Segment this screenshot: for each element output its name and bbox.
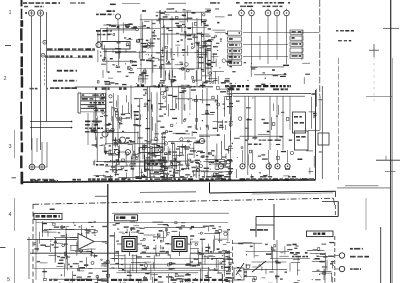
bus wire bbox=[34, 268, 107, 270]
transistor Q7 bbox=[120, 137, 126, 143]
terminal label REM SHIFT bbox=[350, 256, 369, 258]
right margin tick bbox=[383, 27, 399, 29]
svg-text:2: 2 bbox=[4, 76, 7, 82]
wire bbox=[321, 86, 323, 179]
wire bbox=[107, 184, 109, 283]
bus wire bbox=[110, 263, 226, 265]
right tick bbox=[385, 156, 387, 160]
input select section (upper) bbox=[201, 8, 232, 23]
connector label stack bbox=[81, 94, 106, 112]
wire bbox=[206, 88, 208, 178]
junction bbox=[41, 53, 45, 57]
transistor Q1 bbox=[96, 42, 101, 47]
border text row bbox=[88, 178, 302, 181]
cable label 2 bbox=[45, 57, 93, 59]
speaker terminal B bbox=[39, 164, 45, 170]
pre out main in labels bbox=[85, 121, 102, 123]
wire bbox=[31, 138, 33, 164]
wire bbox=[45, 166, 48, 168]
tone amp label box bbox=[115, 215, 138, 221]
wire bbox=[319, 96, 321, 130]
rec play equipment label bbox=[107, 10, 116, 12]
top block right border bbox=[315, 90, 317, 180]
wire tick bbox=[95, 195, 108, 197]
flat amp section bbox=[168, 85, 198, 141]
small text bbox=[96, 164, 108, 166]
bus wire bbox=[27, 239, 77, 241]
wire bbox=[276, 96, 278, 140]
selector terminal J4 bbox=[249, 10, 255, 16]
box top wire bbox=[232, 242, 262, 244]
wire bbox=[217, 95, 219, 132]
wire bbox=[365, 198, 367, 230]
muting section bbox=[195, 131, 233, 180]
relay box K3 bbox=[318, 133, 329, 145]
wire bbox=[95, 93, 97, 140]
input terminal J1 bbox=[29, 10, 35, 16]
margin tick bbox=[5, 45, 11, 47]
fuse box F1 bbox=[139, 148, 150, 153]
wire bbox=[40, 16, 42, 150]
junction cluster bbox=[221, 251, 234, 283]
IC U1 box bbox=[102, 42, 130, 50]
right horizontal wire bbox=[376, 159, 400, 161]
title underline bbox=[122, 3, 140, 5]
margin line segments bbox=[14, 130, 16, 158]
wire bbox=[273, 204, 275, 240]
wire bbox=[244, 96, 246, 165]
connector bracket bbox=[77, 93, 79, 113]
wire bbox=[269, 96, 271, 150]
title text row right bbox=[210, 2, 220, 4]
transistor Q2 bbox=[115, 14, 120, 19]
small label bbox=[247, 144, 272, 146]
equalizer amp label bbox=[137, 84, 163, 86]
bus wire bbox=[30, 252, 228, 254]
selector section texture bbox=[230, 62, 311, 85]
right small text bbox=[336, 30, 354, 32]
wire bbox=[31, 16, 33, 150]
remote driver section bbox=[307, 242, 334, 283]
power section right bbox=[199, 143, 233, 178]
wire bbox=[87, 113, 89, 145]
label row bbox=[30, 88, 49, 90]
right cross mark bbox=[369, 49, 379, 51]
wire bbox=[230, 96, 232, 178]
bus wire bbox=[36, 222, 228, 224]
wire bbox=[301, 30, 303, 60]
right tick 2 bbox=[385, 171, 396, 173]
wire pair bbox=[30, 121, 72, 123]
wire bbox=[196, 18, 198, 86]
left content line bbox=[35, 220, 37, 280]
lower block right dashed border bbox=[334, 205, 336, 217]
bus wire bbox=[112, 258, 229, 260]
bus wire bbox=[135, 86, 213, 88]
remote terminal 1 bbox=[339, 253, 344, 258]
wire bbox=[171, 16, 173, 86]
wire bbox=[337, 202, 339, 217]
wire bbox=[46, 142, 48, 167]
switch S2 bbox=[252, 261, 266, 272]
bus wire bbox=[233, 93, 311, 95]
remote control label box bbox=[307, 231, 334, 237]
wire bbox=[270, 258, 310, 260]
selector matrix wires bbox=[243, 33, 319, 65]
dashed switch row bbox=[245, 140, 300, 141]
op-amp U10 bbox=[78, 234, 94, 250]
ic label rows bbox=[96, 30, 112, 32]
svg-text:3: 3 bbox=[9, 144, 12, 150]
label row bbox=[57, 70, 77, 72]
wire bbox=[209, 182, 211, 192]
bus wire bbox=[137, 68, 200, 70]
terminal label GND bbox=[350, 268, 361, 270]
lower block dash-dot border bbox=[33, 198, 334, 204]
label row bbox=[50, 87, 77, 89]
transistor Q11 bbox=[199, 138, 204, 143]
module M1 (shielded can) bbox=[117, 232, 142, 257]
transistor Q5 bbox=[102, 131, 108, 137]
wire bbox=[117, 95, 119, 145]
wire bbox=[46, 12, 48, 122]
ac terminal row bbox=[218, 164, 290, 169]
right sheet border line bbox=[390, 0, 392, 283]
title text row left bbox=[23, 2, 60, 4]
wire bbox=[196, 95, 198, 130]
border text row 2 bbox=[31, 180, 58, 182]
wire bbox=[105, 93, 107, 131]
pilot terminal bbox=[115, 150, 120, 155]
cable label 1 bbox=[47, 50, 96, 52]
speaker terminal A bbox=[29, 164, 35, 170]
bus wire bbox=[105, 143, 166, 145]
wire fan bbox=[160, 88, 162, 111]
wire bbox=[105, 87, 107, 145]
title text row mid bbox=[110, 4, 116, 6]
bus wire bbox=[210, 191, 336, 193]
wire bbox=[140, 14, 142, 86]
wire bbox=[267, 16, 269, 33]
relay box K1 bbox=[293, 112, 306, 133]
wire bbox=[132, 150, 134, 180]
junction bbox=[43, 40, 47, 44]
wire bbox=[308, 130, 320, 132]
lower block left dashed border bbox=[32, 204, 34, 283]
bus wire bbox=[140, 191, 196, 193]
label row bbox=[53, 80, 77, 82]
bus wire bbox=[118, 270, 229, 272]
cable shield dashes bbox=[44, 59, 46, 86]
selector terminal J5 bbox=[265, 10, 271, 16]
svg-text:5: 5 bbox=[7, 277, 10, 283]
wire bbox=[35, 166, 39, 168]
bus wire bbox=[100, 28, 160, 30]
wire bbox=[289, 96, 291, 130]
main tone amp section bbox=[109, 222, 231, 283]
remote box dashed border bbox=[232, 240, 234, 283]
bus wire 2 bbox=[252, 193, 333, 194]
top block bottom border bbox=[22, 180, 316, 182]
selector terminal J6 bbox=[274, 10, 280, 16]
terminal label +B SHIFT bbox=[350, 248, 363, 250]
source selector labels (AUX/TUNER/PHONO) bbox=[228, 31, 242, 65]
wire bbox=[255, 216, 257, 237]
lower border note bbox=[50, 209, 55, 211]
wire bbox=[251, 16, 253, 33]
module M2 (shielded can) bbox=[167, 232, 192, 257]
tone control label bbox=[95, 88, 127, 90]
margin tick bbox=[0, 247, 6, 249]
power trans box T1 bbox=[145, 160, 165, 170]
relay box K2 bbox=[295, 131, 309, 150]
bus wire bbox=[256, 215, 338, 217]
terminal stub wires bbox=[242, 150, 244, 163]
selector terminal J7 bbox=[284, 10, 290, 16]
wire bbox=[322, 201, 338, 203]
wire bbox=[282, 96, 284, 150]
left border segment bbox=[28, 237, 30, 279]
rec out selector column bbox=[143, 85, 168, 177]
wire bbox=[254, 96, 256, 140]
selector terminal J3 bbox=[239, 10, 245, 16]
rec out column wires bbox=[146, 86, 148, 178]
right border double line bbox=[391, 58, 393, 283]
mode select label strip bbox=[225, 85, 291, 87]
sparse wires area bbox=[276, 144, 322, 160]
input terminal J2 bbox=[38, 10, 44, 16]
wire bbox=[248, 96, 250, 140]
relay frame bbox=[234, 268, 244, 280]
inner box top bbox=[112, 212, 229, 214]
wire bbox=[241, 16, 243, 30]
right horizontal wire bbox=[337, 187, 391, 189]
right column texture bbox=[308, 89, 322, 129]
power amp drive section bbox=[168, 141, 201, 179]
remote terminal 2 bbox=[339, 266, 344, 271]
wire bbox=[41, 142, 43, 164]
monitor selector labels (TAPE/MON) bbox=[290, 30, 303, 58]
switch S1 bbox=[236, 263, 244, 275]
input select section bbox=[196, 30, 233, 84]
wire bbox=[256, 224, 274, 226]
bus wire bbox=[233, 95, 305, 97]
function switch section bbox=[194, 86, 234, 130]
remote amp section bbox=[237, 243, 300, 283]
right vertical wire bbox=[337, 58, 339, 180]
wire bbox=[319, 0, 321, 96]
right vertical wire bbox=[373, 57, 375, 104]
right vertical wire bbox=[380, 227, 382, 283]
wire bbox=[36, 138, 38, 152]
pre/tone amp label box bbox=[34, 213, 62, 219]
label text bbox=[250, 229, 268, 231]
svg-text:4: 4 bbox=[9, 212, 12, 218]
wire bbox=[113, 93, 115, 140]
tick bbox=[25, 12, 27, 14]
amp section top border bbox=[75, 86, 135, 88]
head amp section bbox=[136, 8, 212, 90]
equalizer amp section bbox=[97, 22, 139, 85]
wire bbox=[276, 240, 278, 283]
speaker label bbox=[290, 252, 308, 254]
right horizontal tick bbox=[366, 96, 392, 98]
wire bbox=[286, 16, 288, 33]
wire bbox=[276, 16, 278, 33]
wire bbox=[184, 12, 186, 80]
wire bbox=[160, 10, 162, 78]
right column texture low bbox=[306, 151, 314, 174]
left sheet border bar (top section) bbox=[20, 0, 23, 184]
svg-text:1: 1 bbox=[9, 10, 12, 16]
power supply section bbox=[104, 140, 200, 180]
pre tone amp section bbox=[34, 221, 110, 283]
bus wire bbox=[118, 52, 208, 54]
tone amp section bbox=[90, 93, 145, 177]
mode section texture bbox=[234, 98, 294, 178]
wire bbox=[130, 85, 132, 118]
bottom text row bbox=[49, 279, 228, 281]
wire bbox=[151, 20, 153, 86]
margin tick bbox=[12, 177, 17, 179]
